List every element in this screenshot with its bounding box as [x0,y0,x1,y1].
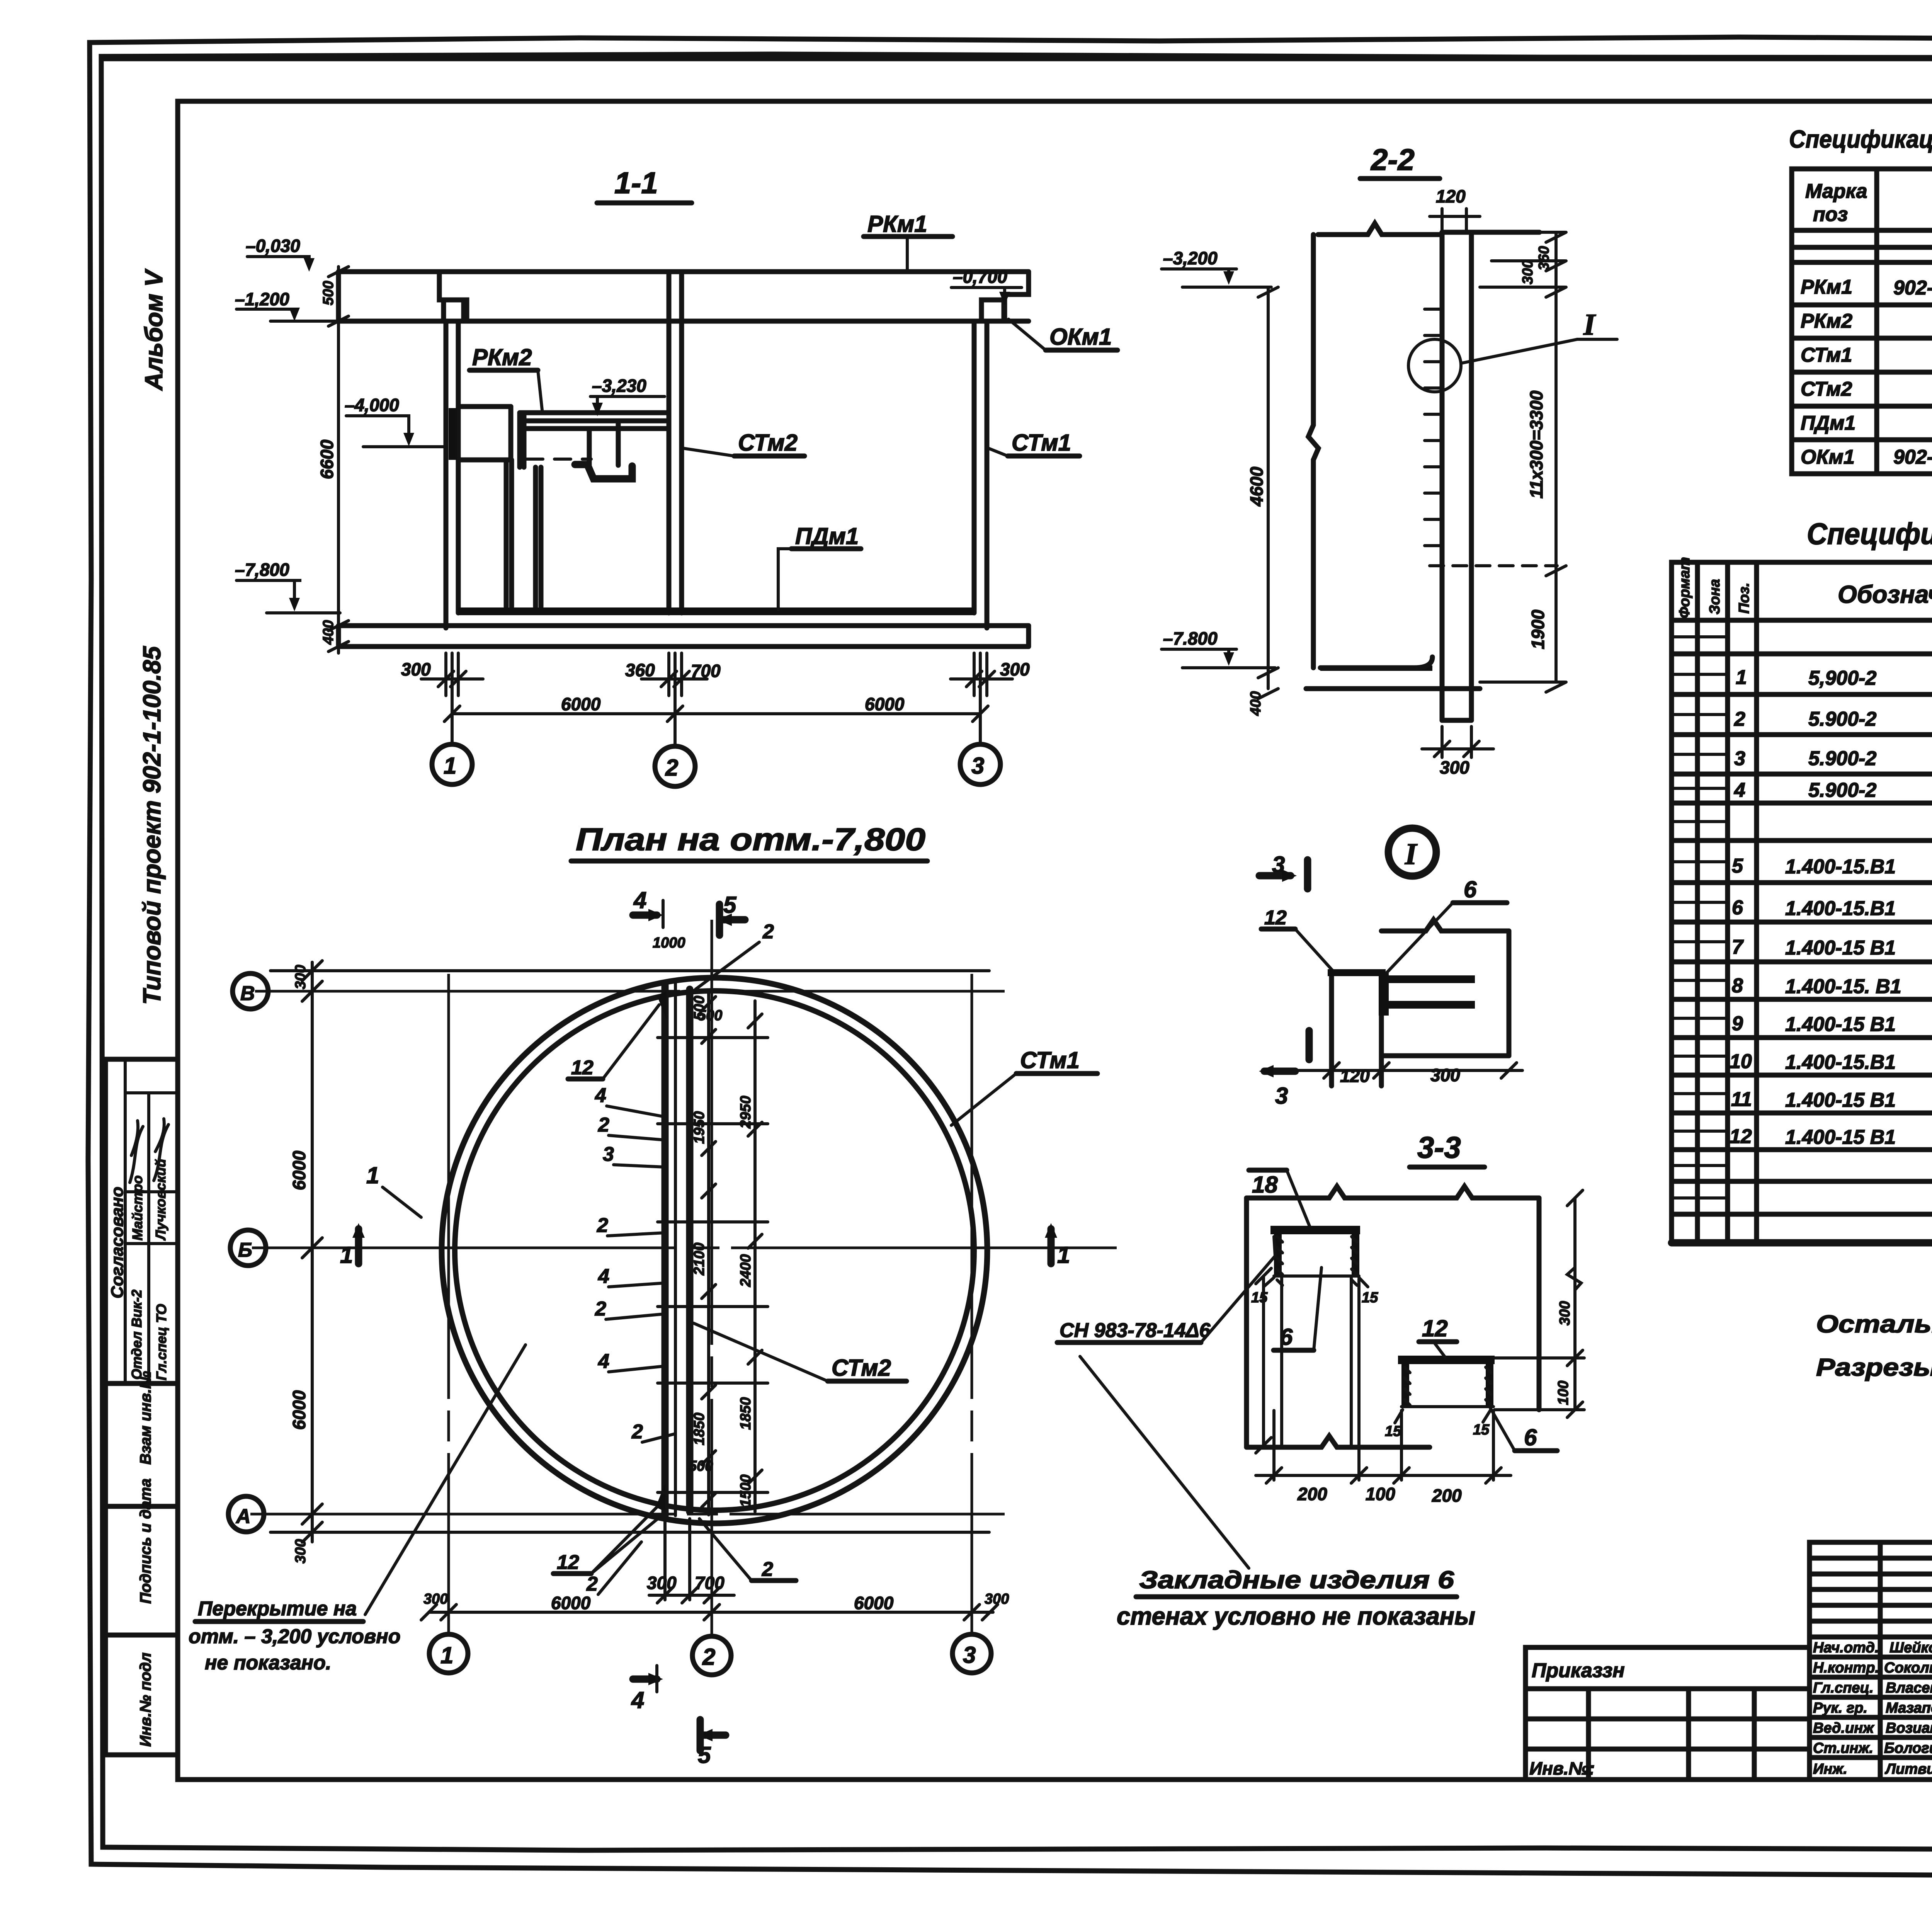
row 10 [1730,1050,1932,1074]
svg-text:11: 11 [1731,1088,1752,1111]
left dimension line 6600 [317,267,349,653]
leader callouts left [553,921,796,1595]
dimension chain inside wall B [748,1001,762,1512]
svg-text:ПДм1: ПДм1 [1801,412,1855,434]
svg-text:РКм2: РКм2 [472,344,532,370]
plan title [571,822,927,861]
svg-text:15: 15 [1385,1423,1401,1439]
svg-text:1-1: 1-1 [614,166,658,200]
svg-text:300: 300 [293,965,309,989]
label СТм2 plan [694,1323,906,1381]
svg-text:360: 360 [625,660,655,680]
svg-text:360: 360 [1536,246,1552,271]
spec table 2 header [1677,557,1932,618]
svg-text:Остальное см. спецификацию и: Остальное см. спецификацию исполнения ли… [1816,1310,1932,1338]
row 3 [1734,747,1932,771]
svg-text:Поз.: Поз. [1736,583,1752,614]
spec row ПДм1 [1801,412,1932,435]
svg-text:6000: 6000 [561,694,601,714]
svg-text:400: 400 [1248,691,1264,716]
svg-text:4: 4 [633,887,646,913]
svg-text:6000: 6000 [551,1593,591,1613]
svg-text:9: 9 [1732,1012,1743,1035]
svg-text:РКм2: РКм2 [1801,310,1852,332]
svg-text:6: 6 [1524,1424,1537,1450]
svg-text:2-2: 2-2 [1370,143,1415,177]
svg-text:1950: 1950 [691,1111,707,1144]
svg-text:200: 200 [1432,1485,1462,1506]
dim line 4600 [1247,287,1278,716]
svg-text:2950: 2950 [738,1096,754,1129]
svg-text:2: 2 [631,1421,643,1443]
svg-text:4: 4 [598,1350,609,1373]
row 4 [1734,779,1932,802]
svg-text:Ст.инж.: Ст.инж. [1813,1740,1873,1756]
wall cross tie lines [658,1038,768,1492]
label ПДм1 [778,523,861,610]
leader СН 983 [1057,1237,1275,1342]
svg-text:120: 120 [1340,1066,1370,1086]
svg-text:2: 2 [762,1558,773,1581]
svg-text:1: 1 [340,1242,353,1268]
svg-text:6000: 6000 [854,1593,894,1613]
svg-text:7: 7 [1732,936,1744,958]
svg-text:–0,700: –0,700 [953,267,1007,287]
grid axis line 1 [447,974,450,1633]
приказом annex table [1526,1647,1810,1780]
leader закладные изделия [1080,1356,1249,1568]
svg-text:300: 300 [1557,1301,1573,1325]
grid axis line В [255,990,1005,993]
svg-text:12: 12 [1422,1315,1448,1341]
svg-text:1: 1 [440,1642,453,1668]
svg-text:1.400-15.В1: 1.400-15.В1 [1785,1051,1896,1074]
svg-text:Вед.инж: Вед.инж [1813,1720,1874,1736]
axis circle 2 (plan bottom) [692,1636,731,1675]
svg-text:Сокольская: Сокольская [1884,1660,1932,1676]
svg-text:4: 4 [631,1687,644,1713]
level mark -0,030 [246,236,315,272]
svg-text:3: 3 [1275,1083,1288,1109]
axis circle 1 [432,653,472,784]
tank roof line [1318,223,1539,235]
svg-text:СТм1: СТм1 [1020,1047,1080,1073]
svg-text:5.900-2: 5.900-2 [1808,747,1876,770]
svg-text:Закладные изделия 6: Закладные изделия 6 [1139,1566,1454,1594]
label 6 detail I [1386,876,1507,974]
spec row ОКм1 [1801,446,1932,469]
spec row РКм2 [1801,305,1932,337]
svg-text:Литвиненко: Литвиненко [1884,1761,1932,1777]
svg-text:120: 120 [1436,186,1466,206]
svg-text:300: 300 [293,1539,309,1564]
spec row СТм1 [1801,344,1932,367]
svg-text:3: 3 [963,1642,976,1668]
row 11 [1731,1088,1932,1112]
section 3-3 title [1410,1130,1485,1167]
svg-text:1850: 1850 [738,1397,754,1430]
dashed level in wall [1430,564,1557,567]
svg-text:1500: 1500 [738,1474,754,1507]
section flag 3 lower [1259,1031,1309,1109]
svg-text:2: 2 [597,1214,608,1237]
svg-text:2400: 2400 [738,1254,754,1287]
section mark 1-1 right [1045,1223,1070,1268]
spec table 1 grid [1792,169,1932,474]
svg-text:Спецификация стен СТм1, СТм2 (: Спецификация стен СТм1, СТм2 (начало) [1807,517,1932,551]
label СТм1 [988,430,1080,456]
svg-text:Майстро: Майстро [129,1176,145,1240]
svg-text:200: 200 [1297,1484,1327,1504]
svg-text:Подпись и дата: Подпись и дата [137,1479,154,1604]
label 6 left channel [1274,1268,1321,1350]
svg-text:В: В [240,982,255,1005]
svg-text:СТм2: СТм2 [738,430,798,456]
svg-text:5: 5 [723,892,737,918]
section flag 4 top [633,887,663,927]
svg-text:3-3: 3-3 [1417,1130,1461,1164]
svg-text:Инв.№:: Инв.№: [1529,1758,1595,1778]
svg-text:2: 2 [586,1573,598,1595]
svg-text:2: 2 [1734,708,1745,730]
note перекрытие не показано [189,1345,526,1674]
svg-text:1: 1 [1057,1242,1070,1268]
svg-text:отм. – 3,200 условно: отм. – 3,200 условно [189,1625,400,1648]
right dims 300/100 [1495,1190,1584,1417]
wall axis 3 СТм1 [974,321,987,628]
axis circle 2 [655,653,695,786]
detail I circle label [1388,828,1436,876]
embedded channel left [1270,1226,1360,1285]
svg-text:СТм1: СТм1 [1801,344,1852,366]
svg-text:12: 12 [1264,907,1287,929]
label 18 [1249,1170,1311,1229]
signature rows [1813,1640,1932,1777]
svg-text:8: 8 [1732,975,1743,997]
svg-text:1000: 1000 [653,935,685,951]
svg-text:2100: 2100 [691,1242,707,1276]
axis circle 1 (plan bottom) [429,1634,468,1673]
svg-text:Отдел Вик-2: Отдел Вик-2 [129,1290,145,1380]
svg-text:Согласовано: Согласовано [108,1187,127,1298]
section flag 3 upper [1259,852,1308,889]
svg-text:СТм2: СТм2 [832,1355,891,1381]
level mark -1,200 [235,289,340,321]
note закладные изделия [1117,1566,1475,1630]
svg-text:–4,000: –4,000 [345,395,399,415]
chain labels rotated [653,935,754,1507]
svg-text:300: 300 [423,1591,448,1607]
section flag 5 top [717,892,745,935]
svg-text:11х300=3300: 11х300=3300 [1526,390,1546,499]
svg-text:3: 3 [603,1143,614,1166]
bottom dimension chain 6000+6000 [444,694,988,721]
dims 15 right channel [1385,1410,1491,1439]
axis circle 3 [960,653,1000,784]
detail I wall [1328,969,1389,1086]
bottom dim 6000/6000 plan [421,1591,1009,1620]
grid axis line А [250,1513,1005,1516]
row 1 сальник [1736,666,1932,690]
svg-text:15: 15 [1362,1290,1378,1306]
svg-text:300: 300 [1520,260,1536,284]
label РКм1 [864,211,952,271]
row 6 [1732,897,1932,921]
wall axis 2 СТм2 [669,272,682,613]
svg-text:Приказзн: Приказзн [1532,1659,1625,1682]
svg-text:стенах условно не показаны: стенах условно не показаны [1117,1602,1475,1630]
title block signature table [1810,1542,1932,1780]
svg-text:Формат: Формат [1677,557,1693,618]
svg-text:500: 500 [689,1458,713,1474]
svg-text:1.400-15.В1: 1.400-15.В1 [1785,897,1896,920]
svg-text:Нач.отд.: Нач.отд. [1813,1640,1879,1656]
level mark -0,700 [951,267,1022,305]
svg-text:500: 500 [698,1007,722,1024]
spec table 2 grid [1672,562,1932,1243]
spec table 1 header [1805,179,1932,226]
right dim line 11x300=3300 / 1900 [1480,232,1566,692]
tank wall outer circle [442,978,987,1523]
svg-text:6000: 6000 [289,1390,309,1430]
section 3-3 body outline [1247,1186,1539,1447]
svg-text:6: 6 [1732,897,1743,919]
dimension chain inside wall A [702,991,716,1515]
svg-text:Гл.спец.: Гл.спец. [1813,1680,1874,1696]
bottom dim 300 (2-2) [1422,727,1493,778]
svg-text:1: 1 [444,753,456,779]
svg-text:–3,230: –3,230 [592,376,646,396]
label ОКм1 [1009,319,1117,350]
svg-text:ОКм1: ОКм1 [1801,446,1855,468]
svg-text:300: 300 [1430,1065,1460,1085]
svg-text:1: 1 [366,1162,379,1188]
section 1-1 title [597,166,692,203]
svg-text:I: I [1583,308,1596,341]
embedded channel right [1398,1356,1495,1407]
svg-text:100: 100 [1366,1484,1395,1504]
svg-text:Инж.: Инж. [1813,1761,1847,1777]
label СТм1 plan [951,1047,1097,1125]
svg-text:2: 2 [595,1298,606,1320]
tank wall inner circle [455,991,974,1510]
svg-text:902-1-99.85 лист4: 902-1-99.85 лист4 [1893,277,1932,299]
svg-text:4: 4 [1734,779,1745,801]
top offset line 300 [270,971,989,1532]
note остальное см [1816,1310,1932,1381]
svg-text:А: А [235,1505,251,1528]
dims 15 left channel [1251,1278,1378,1306]
svg-text:ПДм1: ПДм1 [795,523,859,549]
internal platform РКм2 [449,407,668,607]
svg-text:15: 15 [1251,1290,1268,1306]
svg-text:Обозначение: Обозначение [1838,580,1932,608]
central wall СТм2 plan [656,983,690,1516]
svg-text:СТм1: СТм1 [1012,430,1071,456]
bottom dim 300/700 small chain [647,1519,734,1603]
row 5 [1732,855,1932,879]
svg-text:Разрезы 4-4, 5-5 лист4.: Разрезы 4-4, 5-5 лист4. [1816,1353,1932,1381]
label 12 detail I [1261,907,1334,972]
label 6 right channel [1490,1407,1557,1451]
label 12 right channel [1419,1315,1457,1357]
level mark -7,800 (2-2) [1162,628,1275,668]
svg-text:3: 3 [971,753,984,779]
dim 120 at top [1430,186,1480,232]
svg-text:4600: 4600 [1247,466,1267,507]
svg-text:1.400-15. В1: 1.400-15. В1 [1785,975,1901,998]
section flag 5 bottom [698,1720,726,1768]
spec table 1 title [1789,125,1932,153]
svg-text:5,900-2: 5,900-2 [1808,667,1876,689]
svg-text:не показано.: не показано. [205,1652,331,1674]
svg-text:–0,030: –0,030 [246,236,300,256]
svg-text:500: 500 [320,281,337,305]
svg-text:3: 3 [1734,747,1745,770]
svg-text:Лучковский: Лучковский [153,1159,168,1241]
svg-text:РКм1: РКм1 [1801,276,1852,298]
svg-text:План на отм.-7,800: План на отм.-7,800 [576,822,925,857]
svg-text:5.900-2: 5.900-2 [1808,708,1876,730]
grid axis line 2 [711,920,713,1635]
label СТм2 [683,430,804,456]
svg-text:–7,800: –7,800 [235,560,289,580]
svg-text:5.900-2: 5.900-2 [1808,779,1876,801]
svg-text:I: I [1405,837,1418,871]
level mark -7,800 [235,560,340,613]
level mark -4,000 [345,395,446,447]
svg-text:Мазапова: Мазапова [1886,1700,1932,1716]
label РКм2 [469,344,543,413]
svg-text:700: 700 [691,661,721,681]
svg-text:Перекрытие на: Перекрытие на [198,1598,357,1620]
section mark 1-1 left [340,1162,421,1268]
svg-text:12: 12 [571,1057,594,1079]
svg-text:–7.800: –7.800 [1163,628,1218,648]
svg-text:СН 983-78-14Δ6: СН 983-78-14Δ6 [1060,1319,1211,1342]
svg-text:1850: 1850 [691,1412,707,1445]
axis circle Б [230,1230,266,1266]
svg-text:Зона: Зона [1707,579,1723,614]
svg-text:1.400-15 В1: 1.400-15 В1 [1785,1126,1896,1149]
row 2 [1734,708,1932,731]
ladder rungs 11x300 [1425,309,1442,546]
svg-text:300: 300 [401,659,431,679]
svg-text:12: 12 [1730,1125,1752,1148]
left dim line 6000/6000 [289,961,322,1564]
left margin strip [105,268,178,1755]
spec row РКм1 [1801,269,1932,302]
svg-text:Гл.спец ТО: Гл.спец ТО [153,1304,169,1380]
svg-text:СТм2: СТм2 [1801,378,1852,400]
wall of section 2-2 [1308,232,1471,687]
svg-text:РКм1: РКм1 [867,211,927,237]
axis circle 3 (plan bottom) [952,1634,991,1673]
svg-text:18: 18 [1252,1172,1278,1198]
svg-text:Шейко: Шейко [1889,1640,1932,1656]
detail I dims 120 300 [1291,1059,1522,1086]
svg-text:6600: 6600 [317,439,337,479]
svg-text:Н.контр.: Н.контр. [1813,1660,1879,1676]
svg-text:Б: Б [238,1239,252,1261]
svg-text:2: 2 [702,1644,715,1670]
svg-text:902-1- 99.85 лист2: 902-1- 99.85 лист2 [1893,446,1932,468]
svg-text:Бологинская: Бологинская [1884,1740,1932,1756]
grid axis line Б [252,1247,1117,1249]
svg-text:1.400-15.В1: 1.400-15.В1 [1785,856,1896,878]
svg-text:Взам инв.№: Взам инв.№ [137,1371,154,1465]
svg-text:300: 300 [647,1573,677,1593]
vertical dim left channel [1256,1268,1351,1453]
roof slab РКм1 [338,272,1029,321]
svg-text:4: 4 [595,1084,606,1107]
section 2-2 title [1360,143,1440,179]
svg-text:ОКм1: ОКм1 [1049,324,1112,350]
svg-text:Спецификация к схеме расположе: Спецификация к схеме расположения элемен… [1789,125,1932,153]
level mark -3,200 [1162,248,1271,287]
svg-text:300: 300 [1440,757,1469,778]
svg-text:2: 2 [665,755,678,781]
svg-text:300: 300 [985,1591,1009,1607]
grid axis line 3 [971,974,973,1633]
row 7 [1732,936,1932,960]
svg-text:100: 100 [1555,1381,1571,1405]
svg-text:1.400-15 В1: 1.400-15 В1 [1785,1013,1896,1036]
svg-text:–1,200: –1,200 [235,289,289,309]
svg-text:Альбом V: Альбом V [140,268,168,391]
svg-text:15: 15 [1473,1422,1490,1438]
bottom slab ПДм1 [338,607,1029,647]
svg-text:5: 5 [1732,855,1743,877]
svg-text:1900: 1900 [1528,609,1548,649]
level mark -3,230 [590,376,665,416]
svg-text:6: 6 [1464,876,1477,902]
svg-text:4: 4 [598,1265,609,1288]
svg-text:700: 700 [695,1573,724,1593]
svg-text:400: 400 [320,620,337,645]
svg-text:Власенко: Власенко [1886,1680,1932,1696]
bottom dimension chain 300/360/700/300 [401,653,1030,696]
svg-text:1.400-15 В1: 1.400-15 В1 [1785,1089,1896,1111]
row 12 [1730,1125,1932,1149]
svg-text:поз: поз [1813,203,1848,226]
wall axis 1 [446,321,458,628]
svg-text:Марка: Марка [1805,180,1867,202]
detail I slab [1381,920,1509,1056]
bottom dims 200/100/200 [1256,1279,1511,1506]
svg-text:12: 12 [557,1551,579,1574]
axis circle В [233,973,268,1009]
tank floor 2-2 [1306,657,1480,720]
section flag 4 bottom [631,1666,663,1713]
svg-text:Типовой проект 902-1-100.85: Типовой проект 902-1-100.85 [138,646,166,1005]
svg-text:–3,200: –3,200 [1163,248,1218,268]
axis circle А [228,1496,264,1532]
detail circle on ladder [1408,308,1617,392]
svg-text:1.400-15 В1: 1.400-15 В1 [1785,937,1896,959]
row 8 [1732,975,1932,999]
svg-text:2: 2 [762,921,774,943]
svg-text:Возианов: Возианов [1886,1720,1932,1736]
spec row СТм2 [1801,378,1932,401]
svg-text:10: 10 [1730,1050,1752,1073]
svg-text:300: 300 [1000,659,1030,679]
svg-text:Рук. гр.: Рук. гр. [1813,1700,1867,1716]
svg-text:6000: 6000 [865,694,905,714]
svg-text:1: 1 [1736,666,1747,689]
row 9 [1732,1012,1932,1036]
svg-text:Инв.№ подл: Инв.№ подл [137,1652,154,1747]
